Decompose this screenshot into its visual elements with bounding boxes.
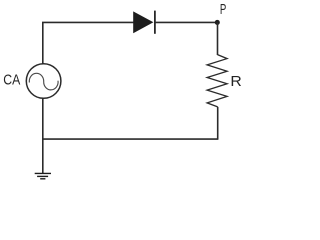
node P junction dot [215, 20, 220, 25]
AC source CA circle [26, 64, 61, 99]
svg-text:R: R [230, 74, 241, 90]
wire right vertical above resistor [217, 22, 219, 55]
diode D1 [133, 11, 155, 34]
wire bottom rail [43, 138, 219, 140]
wire source bottom to ground [42, 98, 44, 173]
wire top-left vertical (source top to top rail) [42, 22, 44, 63]
AC source sine wave [29, 73, 58, 90]
wire top rail cathode side [155, 21, 217, 23]
wire right vertical below resistor [217, 107, 219, 139]
wire top rail anode side [42, 21, 134, 23]
ground [35, 173, 51, 178]
svg-text:CA: CA [3, 72, 20, 88]
svg-text:P: P [220, 2, 226, 18]
resistor R [207, 55, 227, 107]
